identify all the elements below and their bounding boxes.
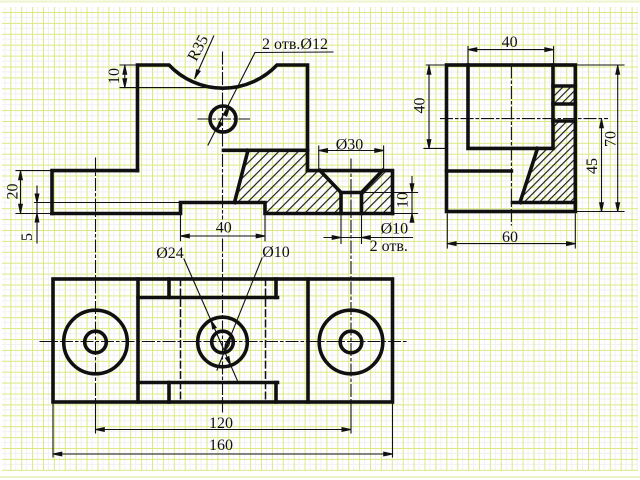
svg-text:Ø24: Ø24 xyxy=(156,245,184,262)
inner full-height verticals xyxy=(138,279,308,402)
dimension 20 (left) xyxy=(16,171,52,214)
rib top edge xyxy=(224,149,308,153)
dimension 60 (bottom) xyxy=(447,214,575,248)
hatch: small box in right column xyxy=(553,86,575,104)
dimension 70 (right) xyxy=(575,65,624,212)
svg-text:2 отв.: 2 отв. xyxy=(370,238,408,255)
right column internal lines xyxy=(553,86,575,121)
hole Ø12 xyxy=(210,106,236,132)
svg-text:160: 160 xyxy=(209,437,233,454)
leader Ø10 xyxy=(217,258,262,370)
svg-text:Ø30: Ø30 xyxy=(336,137,364,154)
hatch area right of hole xyxy=(362,171,393,214)
faint top paper edge line xyxy=(0,1,640,3)
svg-text:2 отв.Ø12: 2 отв.Ø12 xyxy=(262,36,328,53)
svg-text:40: 40 xyxy=(502,34,518,51)
circles xyxy=(64,310,128,374)
dimension 10 (top left) xyxy=(120,65,236,88)
countersink funnel xyxy=(320,171,341,214)
foot recess edge xyxy=(513,201,576,205)
dimension 45 (right inner) xyxy=(601,119,603,212)
outer outline xyxy=(447,65,576,212)
svg-text:10: 10 xyxy=(106,68,123,84)
outer rect xyxy=(53,279,393,402)
faint bottom paper edge line xyxy=(0,476,640,478)
svg-text:20: 20 xyxy=(5,184,22,200)
dimension 40 (top) xyxy=(468,47,554,64)
U groove xyxy=(468,65,553,148)
countersink neck edge xyxy=(341,191,362,195)
svg-text:5: 5 xyxy=(19,233,36,241)
dimension 160 xyxy=(53,403,393,457)
hatch area left of hole xyxy=(235,150,342,213)
hidden lines (foot edges) xyxy=(181,279,266,402)
dimension 10 (hole depth, right) xyxy=(363,177,418,220)
left step of base xyxy=(52,171,138,214)
dimension Ø30 (countersink) xyxy=(319,146,384,170)
svg-text:45: 45 xyxy=(584,158,601,174)
svg-text:40: 40 xyxy=(412,98,429,114)
leader Ø24 xyxy=(184,259,238,382)
dimension Ø10 (hole, 2 holes) xyxy=(324,216,413,244)
dimension 40 (left) xyxy=(424,65,447,148)
centerlines xyxy=(96,52,352,412)
dimension 120 xyxy=(96,429,351,431)
rib slant edge xyxy=(235,150,249,202)
band short verticals xyxy=(169,279,276,402)
dimension 40 (foot) xyxy=(181,215,266,241)
centerlines xyxy=(441,66,608,225)
horizontal centerline xyxy=(40,341,406,343)
band horizontals xyxy=(138,298,278,383)
leader R35 xyxy=(195,36,214,79)
leader 2 отв.Ø12 xyxy=(208,52,333,145)
svg-text:120: 120 xyxy=(209,415,233,432)
svg-text:40: 40 xyxy=(216,220,232,237)
hatch: big region xyxy=(520,121,575,203)
slant xyxy=(520,148,538,202)
svg-text:70: 70 xyxy=(603,131,620,147)
svg-text:10: 10 xyxy=(395,192,412,208)
mid edge xyxy=(447,169,512,173)
svg-text:Ø10: Ø10 xyxy=(381,221,409,238)
outline: upright with R35 top notch xyxy=(52,65,393,214)
svg-text:60: 60 xyxy=(502,229,518,246)
dimension 5 (left, foot recess) xyxy=(35,186,181,243)
right block top and right edge xyxy=(308,171,393,214)
base bottom with foot recess xyxy=(52,203,393,214)
svg-text:Ø10: Ø10 xyxy=(262,244,290,261)
